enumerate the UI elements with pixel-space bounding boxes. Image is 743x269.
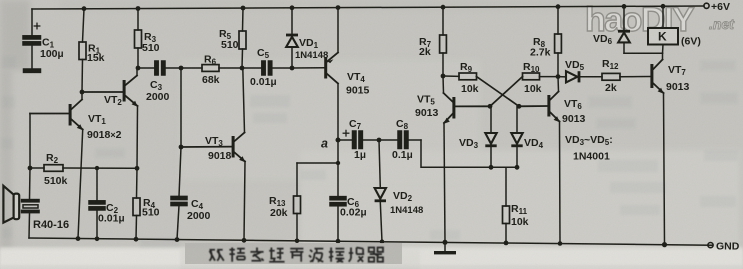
paper shading patches bbox=[300, 150, 740, 250]
node junction R1/VT1 collector/VT2 base bbox=[80, 90, 85, 95]
wire VT1 base column bbox=[29, 114, 31, 169]
resistor R11 bbox=[503, 167, 510, 243]
capacitor C1 bbox=[23, 9, 41, 69]
node junction VD1 / VT4 base wire bbox=[290, 66, 295, 71]
node junction C7 / C8 / VD2 bbox=[377, 138, 382, 143]
resistor R8 bbox=[555, 7, 562, 77]
capacitor C3 bbox=[138, 61, 181, 75]
resistor R4 bbox=[133, 168, 140, 239]
node junction VT3 base / C4 bbox=[179, 145, 184, 150]
node junction VT1 base / R2 / transducer bbox=[28, 166, 33, 171]
node junction VD3 / trigger line bbox=[489, 165, 494, 170]
node +6V terminal bbox=[704, 3, 709, 8]
wire VT3 emitter to GND rail bbox=[244, 162, 245, 241]
watermark haoDIY.net bbox=[585, 1, 735, 39]
node junction dots on +6V rail bbox=[82, 4, 561, 11]
resistor R12 bbox=[602, 73, 650, 80]
diode VD4 bbox=[511, 106, 522, 167]
node junction VD6 top rail bbox=[622, 4, 627, 9]
resistor R9 bbox=[443, 73, 519, 106]
node junction VT6 base / R9 / VD4 bbox=[517, 104, 522, 109]
transistor VT2 bbox=[82, 68, 138, 107]
capacitor C6 bbox=[330, 163, 346, 241]
wire VT6 emitter to GND rail bbox=[559, 122, 562, 244]
wire bottom GND rail bbox=[29, 238, 712, 245]
node junction R8 / R10 / VD5 / VT6 collector bbox=[556, 74, 561, 79]
node junction K top rail bbox=[661, 4, 666, 9]
node junction R3 / C3 / VT2 collector bbox=[136, 66, 141, 71]
node GND terminal bbox=[708, 243, 713, 248]
resistor R2 bbox=[30, 165, 137, 172]
resistor R10 bbox=[490, 73, 558, 106]
resistor R13 bbox=[294, 163, 339, 241]
capacitor C7 bbox=[338, 130, 379, 148]
node junction VT5 base / R10 / VD3 bbox=[488, 104, 493, 109]
resistor R3 bbox=[135, 9, 142, 69]
transistor VT1 bbox=[30, 92, 83, 130]
transducer B R40-16 speaker bbox=[3, 168, 39, 238]
node junction dots on GND rail bbox=[76, 236, 668, 247]
node junction VD1 top rail bbox=[290, 5, 295, 10]
node junction R2 / VT2 emitter / R4 bbox=[135, 166, 140, 171]
wire VT5 emitter to GND rail bbox=[444, 123, 445, 242]
wire +6V top rail bbox=[32, 6, 704, 9]
node junction a / R13 / C6 bbox=[336, 161, 340, 165]
node a bbox=[336, 138, 341, 143]
wire VT1 emitter to GND rail bbox=[78, 130, 83, 239]
capacitor C4 bbox=[171, 68, 187, 240]
diode VD3 bbox=[485, 106, 496, 167]
resistor R6 bbox=[181, 65, 242, 72]
transistor VT3 bbox=[181, 68, 245, 162]
capacitor C5 bbox=[242, 61, 292, 75]
node junction R7 / R9 / VT5 collector bbox=[441, 74, 446, 79]
transistor VT7 bbox=[650, 53, 663, 94]
wire node a down bbox=[337, 140, 339, 163]
node junction R6 / R5 / C5 / VT3 collector bbox=[240, 66, 245, 71]
wire VD1 to VT4 base bbox=[292, 67, 324, 69]
transistor VT4 bbox=[324, 8, 338, 140]
relay K bbox=[648, 6, 678, 53]
resistor R1 bbox=[79, 9, 86, 92]
wire VT2 emitter down bbox=[136, 106, 139, 168]
diode VD6 bbox=[618, 6, 630, 53]
node junction VD4 / trigger line bbox=[515, 165, 520, 170]
wire C8 to trigger line bbox=[421, 140, 518, 167]
ground bar under C1 bbox=[24, 69, 41, 72]
node junction VT4 emitter top rail bbox=[336, 5, 341, 10]
wire VT7 emitter to GND rail bbox=[664, 93, 665, 245]
diode VD1 bbox=[286, 8, 298, 68]
caption title 双稳态超声波接收器 (drawn strokes) bbox=[210, 248, 384, 262]
ground symbol below rail bbox=[434, 242, 456, 254]
node junction C3 / R6 / VT3 base column bbox=[179, 66, 184, 71]
diode VD5 bbox=[558, 71, 602, 82]
diode VD2 bbox=[375, 140, 386, 242]
faint bleed-through marks bbox=[1, 56, 738, 248]
node junction R2 / C2 bbox=[95, 166, 99, 170]
wire VD6 to VT7 collector bbox=[624, 52, 663, 54]
caption band bbox=[185, 243, 402, 264]
transistor VT5 bbox=[443, 76, 490, 124]
capacitor C8 bbox=[379, 131, 421, 149]
resistor R7 bbox=[440, 7, 447, 76]
resistor R5 bbox=[239, 8, 246, 68]
capacitor C2 bbox=[89, 168, 105, 239]
transistor VT6 bbox=[519, 77, 560, 123]
